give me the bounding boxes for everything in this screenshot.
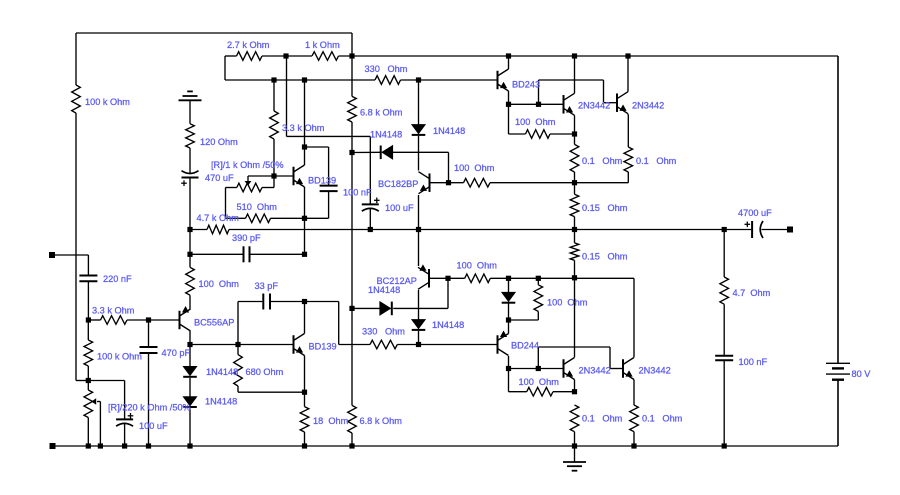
wire 330 R18 right lead bbox=[397, 344, 418, 346]
node gnd rail 6.8k bbox=[349, 443, 354, 448]
resistor R1 2.7 k Ohm bbox=[237, 52, 263, 61]
wire D2 to corner bbox=[393, 152, 449, 182]
node feedback junction bbox=[86, 378, 91, 383]
wire to 100uF C8 bbox=[88, 381, 124, 420]
wire 3.3k R7 bottom lead bbox=[273, 139, 275, 176]
wire 2.7k bracket bbox=[224, 56, 226, 80]
wire Q5 base bbox=[149, 319, 179, 321]
wire y278 line a bbox=[448, 277, 465, 279]
wire Q6 emitter lead bbox=[418, 195, 420, 230]
wire R23 leads bbox=[509, 278, 539, 320]
node 0.15 bottom bbox=[572, 275, 577, 280]
svg-text:100 nF: 100 nF bbox=[739, 357, 768, 367]
resistor R28 0.1 Ohm bbox=[570, 405, 579, 432]
svg-text:1N4148: 1N4148 bbox=[205, 397, 237, 407]
ground G1 bbox=[179, 91, 202, 100]
transistor Q3 2N3442 bbox=[564, 93, 575, 115]
wire output rail y229 bbox=[229, 229, 724, 231]
resistor R29 0.1 Ohm bbox=[630, 405, 639, 432]
svg-text:3.3 k Ohm: 3.3 k Ohm bbox=[92, 306, 135, 316]
resistor R26 0.15 Ohm bbox=[570, 194, 579, 216]
wire 100k R13 top lead bbox=[87, 320, 89, 340]
node pot P1 wiper bbox=[271, 173, 276, 178]
wire Q9 emitter lead bbox=[574, 380, 576, 392]
wire 33pF branch bbox=[238, 302, 262, 345]
capacitor C9 4700 uF bbox=[751, 221, 753, 238]
svg-text:BD243: BD243 bbox=[512, 80, 540, 90]
node Q5 collector bbox=[187, 342, 192, 347]
resistor R9 510 Ohm bbox=[246, 214, 271, 223]
node 390pF left bbox=[187, 252, 192, 257]
svg-text:0.15 Ohm: 0.15 Ohm bbox=[582, 203, 628, 213]
wire Q7 collector to D6 bbox=[418, 290, 420, 320]
svg-text:100 Ohm: 100 Ohm bbox=[454, 163, 495, 173]
wire D6 bottom lead bbox=[418, 331, 420, 345]
diode D4 1N4148 bbox=[183, 397, 197, 407]
wire top rail drop bbox=[351, 33, 353, 56]
node top rail x352 bbox=[349, 53, 354, 58]
resistor R6 120 Ohm bbox=[186, 124, 195, 148]
svg-text:100 Ohm: 100 Ohm bbox=[457, 261, 498, 271]
node Q1 emitter bbox=[302, 216, 307, 221]
node Q1 collector tap bbox=[302, 144, 307, 149]
svg-text:680 Ohm: 680 Ohm bbox=[246, 367, 284, 377]
wire Q10 emitter lead bbox=[633, 380, 635, 406]
node top rail Q3c bbox=[572, 53, 577, 58]
svg-text:100 Ohm: 100 Ohm bbox=[519, 377, 560, 387]
terminal ground ref bbox=[50, 443, 56, 449]
wire lower driver node bbox=[509, 368, 563, 370]
ground G2 bbox=[563, 446, 586, 471]
node gnd rail 0.1a bbox=[572, 443, 577, 448]
terminal output bbox=[787, 227, 793, 233]
wire 6.8k R17 bottom lead bbox=[351, 433, 353, 446]
wire 6.8k R5 top lead bbox=[351, 56, 353, 96]
wire to D5 bbox=[352, 307, 380, 309]
wire Q3 emitter lead bbox=[574, 115, 576, 134]
wire 220nF C1 bottom lead bbox=[87, 281, 89, 320]
wire 4.7 R30 to 100nF bbox=[723, 304, 725, 356]
node output x190 bbox=[187, 227, 192, 232]
wire bias line y80 left bbox=[225, 79, 375, 81]
svg-text:BC556AP: BC556AP bbox=[194, 318, 234, 328]
svg-text:BD244: BD244 bbox=[511, 341, 539, 351]
wire 100uF C8 bottom lead bbox=[124, 424, 126, 447]
svg-text:0.15 Ohm: 0.15 Ohm bbox=[582, 252, 628, 262]
node output 4700uF bbox=[722, 227, 727, 232]
wire Q2b collector line bbox=[304, 302, 306, 334]
diode D7 1N4148 bbox=[502, 292, 516, 302]
svg-text:80 V: 80 V bbox=[852, 369, 872, 379]
wire lower base line y344 left bbox=[190, 344, 293, 346]
wire 100k R1 top lead bbox=[75, 33, 77, 85]
svg-text:4.7 k Ohm: 4.7 k Ohm bbox=[197, 213, 240, 223]
wire jog to Q10 base bbox=[538, 347, 622, 369]
wire 6.8k R5 bottom lead bbox=[351, 122, 353, 153]
resistor R15 680 Ohm bbox=[234, 355, 243, 386]
wire 0.1 R28 bottom lead bbox=[574, 432, 576, 446]
wire 680 R15 top lead bbox=[237, 345, 239, 355]
wire Q8 base line bbox=[419, 344, 497, 346]
terminal input bbox=[49, 252, 55, 258]
wire 470uF C2 bottom lead bbox=[189, 178, 191, 230]
wire 470uF C2 top lead bbox=[189, 148, 191, 174]
node top rail Q2c bbox=[506, 53, 511, 58]
node gnd rail diodes bbox=[187, 443, 192, 448]
node bias x274 bbox=[271, 77, 276, 82]
wire Q2 emitter lead bbox=[508, 91, 510, 104]
transistor Q2 BD243 bbox=[498, 69, 509, 91]
node Q7 base bbox=[445, 276, 450, 281]
wire ground rail y446 bbox=[52, 445, 838, 447]
svg-text:470 uF: 470 uF bbox=[205, 173, 234, 183]
wire Q4 collector lead bbox=[627, 56, 629, 92]
svg-text:BD139: BD139 bbox=[308, 176, 336, 186]
node D6 bottom bbox=[416, 342, 421, 347]
svg-text:100 uF: 100 uF bbox=[385, 203, 414, 213]
wire between 2.7k and 1k bbox=[262, 55, 312, 57]
wire 0.1 R25 top lead bbox=[627, 115, 629, 147]
battery V1 80 V bbox=[826, 56, 850, 446]
wire D5 to Q7 base corner bbox=[393, 278, 448, 308]
wire 33pF node to 330 R18 bbox=[305, 302, 371, 345]
wire Q1 base bbox=[274, 175, 293, 177]
svg-text:1N4148: 1N4148 bbox=[206, 367, 238, 377]
svg-text:100 Ohm: 100 Ohm bbox=[547, 298, 588, 308]
wire 510 right lead bbox=[271, 217, 305, 219]
wire y182 line a bbox=[449, 182, 464, 184]
diode D2 1N4148 bbox=[381, 146, 393, 160]
svg-text:0.1 Ohm: 0.1 Ohm bbox=[642, 414, 683, 424]
wire Q2 emitter to Q3 base bbox=[509, 103, 563, 105]
svg-text:1N4148: 1N4148 bbox=[432, 320, 464, 330]
svg-text:33 pF: 33 pF bbox=[255, 281, 279, 291]
wire 0.1 R24 leads bbox=[574, 134, 576, 183]
potentiometer P2 220k 50% bbox=[84, 390, 93, 418]
wire 390pF right lead bbox=[251, 253, 305, 255]
capacitor C10 100 nF bbox=[715, 356, 733, 361]
wire 470pF C4 bottom lead bbox=[148, 353, 150, 446]
resistor R18 330 Ohm bbox=[370, 340, 397, 349]
wire left vertical feedback bbox=[75, 113, 77, 381]
node Q3 emitter bbox=[572, 131, 577, 136]
node Q9 emitter bbox=[572, 389, 577, 394]
svg-text:1N4148: 1N4148 bbox=[370, 130, 402, 140]
transistor Q1 BD139 bbox=[294, 165, 305, 187]
resistor R23 100 Ohm bbox=[534, 285, 543, 312]
svg-text:2N3442: 2N3442 bbox=[579, 366, 611, 376]
transistor Q8 BD244 bbox=[498, 331, 509, 356]
svg-text:330 Ohm: 330 Ohm bbox=[365, 64, 408, 74]
svg-text:100 Ohm: 100 Ohm bbox=[199, 279, 240, 289]
wire Q7 base bbox=[430, 277, 448, 279]
capacitor C5 33 pF bbox=[263, 294, 270, 310]
resistor R3 330 Ohm bbox=[375, 76, 401, 85]
svg-text:3.3 k Ohm: 3.3 k Ohm bbox=[282, 123, 325, 133]
resistor R25 0.1 Ohm bbox=[624, 147, 633, 172]
wire 33pF to Q2b collector bbox=[271, 301, 305, 303]
transistor Q4 2N3442 bbox=[617, 92, 628, 115]
node 6.8k bottom bbox=[349, 150, 354, 155]
node A 2.7k/1k bbox=[283, 53, 288, 58]
svg-text:1 k Ohm: 1 k Ohm bbox=[305, 40, 340, 50]
resistor R16 18 Ohm bbox=[300, 392, 309, 446]
wire 3.3k R7 top lead bbox=[273, 80, 275, 111]
svg-text:100 k Ohm: 100 k Ohm bbox=[85, 97, 130, 107]
svg-text:2N3442: 2N3442 bbox=[632, 101, 664, 111]
wire V+ right vertical bbox=[837, 56, 839, 363]
node gnd rail pot bbox=[86, 443, 91, 448]
svg-text:4.7 Ohm: 4.7 Ohm bbox=[733, 288, 771, 298]
wire y182 line b bbox=[490, 172, 628, 183]
wire Q4 base jog bbox=[539, 80, 617, 104]
diode D5 1N4148 bbox=[380, 302, 392, 316]
resistor R24 0.1 Ohm bbox=[570, 144, 579, 172]
node D7 top bbox=[506, 276, 511, 281]
wire 470pF C4 top lead bbox=[148, 320, 150, 347]
wire Q8 emitter lead bbox=[508, 320, 510, 334]
wire pot P1 left bracket bbox=[226, 188, 246, 219]
resistor R30 4.7 Ohm bbox=[720, 277, 729, 304]
node Q3 base bbox=[536, 102, 541, 107]
node Q8 emitter bbox=[506, 317, 511, 322]
wire output to 390pF node bbox=[189, 230, 191, 255]
node R23 top bbox=[536, 276, 541, 281]
wire Q7 emitter lead bbox=[418, 230, 420, 267]
resistor R10 4.7 k Ohm bbox=[190, 225, 229, 234]
resistor R13 100 k Ohm bbox=[84, 340, 93, 366]
node bias x418 bbox=[416, 77, 421, 82]
transistor Q7 BC212AP bbox=[418, 264, 429, 289]
potentiometer P1 1k 50% bbox=[237, 183, 262, 192]
transistor Q11 BD139 bbox=[294, 334, 305, 356]
node gnd rail 470pF bbox=[146, 443, 151, 448]
svg-text:100 uF: 100 uF bbox=[139, 421, 168, 431]
svg-text:2N3442: 2N3442 bbox=[639, 366, 671, 376]
resistor R17 6.8 k Ohm bbox=[348, 405, 357, 433]
wire 4700uF right lead bbox=[762, 229, 788, 231]
wire y278 to Q10 collector bbox=[575, 278, 635, 357]
diode D3 1N4148 bbox=[183, 366, 197, 376]
wire 3.3k R12 left lead bbox=[88, 319, 100, 321]
resistor R22 100 Ohm bbox=[527, 387, 553, 396]
node 680 top bbox=[235, 342, 240, 347]
wire y278 line b bbox=[490, 277, 574, 279]
wire 0.15 chain bbox=[574, 183, 576, 278]
wire D1 to Q6 collector bbox=[418, 136, 420, 171]
resistor R19 100 Ohm bbox=[464, 178, 491, 187]
svg-text:390 pF: 390 pF bbox=[232, 233, 261, 243]
svg-text:100 Ohm: 100 Ohm bbox=[515, 117, 556, 127]
resistor R5 6.8 k Ohm bbox=[348, 96, 357, 122]
wire 100ohm R22 right lead bbox=[553, 391, 575, 393]
svg-text:6.8 k Ohm: 6.8 k Ohm bbox=[360, 108, 403, 118]
node 390pF right bbox=[302, 252, 307, 257]
svg-text:0.1 Ohm: 0.1 Ohm bbox=[582, 156, 623, 166]
transistor Q5 BC556AP bbox=[180, 306, 191, 331]
wire node to 390pF bbox=[304, 218, 306, 254]
wire Q9 collector line bbox=[574, 278, 576, 358]
capacitor C1 220 nF bbox=[79, 276, 97, 282]
wire VAS rail x352 bbox=[351, 153, 353, 406]
node output 100uF bbox=[368, 227, 373, 232]
wire Q2b emitter line bbox=[304, 356, 306, 393]
diode D1 1N4148 bbox=[412, 125, 426, 135]
node Q9 base bbox=[536, 366, 541, 371]
node gnd rail 0.1b bbox=[631, 443, 636, 448]
resistor R27 0.15 Ohm bbox=[570, 243, 579, 260]
wire 100ohm R21 right lead bbox=[550, 133, 575, 135]
wire 390pF left lead bbox=[190, 253, 243, 255]
resistor R21 100 Ohm bbox=[526, 130, 551, 139]
node gnd rail wiper bbox=[98, 443, 103, 448]
svg-text:2N3442: 2N3442 bbox=[578, 101, 610, 111]
resistor R20 100 Ohm bbox=[465, 274, 491, 283]
capacitor C8 100 uF bbox=[116, 413, 133, 426]
node Q8 collector bbox=[506, 366, 511, 371]
svg-text:BD139: BD139 bbox=[309, 342, 337, 352]
svg-text:[R]/1 k Ohm /50%: [R]/1 k Ohm /50% bbox=[211, 160, 284, 170]
node Q2 emitter bbox=[506, 102, 511, 107]
wire diode chain D3 D4 bbox=[189, 345, 191, 447]
wire pot P2 wiper bbox=[97, 402, 100, 447]
node gnd rail 100nF bbox=[722, 443, 727, 448]
capacitor C6 100 nF bbox=[320, 186, 338, 192]
wire Q8 collector lead bbox=[508, 356, 510, 369]
svg-text:4700 uF: 4700 uF bbox=[738, 208, 772, 218]
capacitor C3 390 pF bbox=[244, 246, 250, 262]
diode D6 1N4148 bbox=[412, 320, 426, 330]
node gnd rail 100uF bbox=[122, 443, 127, 448]
node 3.3k left bbox=[86, 317, 91, 322]
transistor Q10 2N3442 bbox=[623, 358, 634, 380]
svg-text:120 Ohm: 120 Ohm bbox=[200, 137, 238, 147]
wire down to 100ohm R21 bbox=[509, 104, 526, 134]
wire 680 R15 bottom lead bbox=[238, 386, 305, 392]
node 33pF right bbox=[302, 299, 307, 304]
node bias x304 bbox=[302, 77, 307, 82]
svg-text:220 nF: 220 nF bbox=[103, 274, 132, 284]
wire 4.7 R30 top lead bbox=[723, 230, 725, 278]
wire input stub bbox=[55, 255, 88, 276]
svg-text:[R]/220 k Ohm /50%: [R]/220 k Ohm /50% bbox=[108, 403, 191, 413]
wire 2.7k left lead bbox=[225, 55, 237, 57]
node 3.3k right bbox=[146, 317, 151, 322]
resistor R4 100 k Ohm bbox=[72, 85, 81, 113]
svg-text:510 Ohm: 510 Ohm bbox=[237, 202, 278, 212]
wire diode D1 top lead bbox=[418, 80, 420, 125]
node output x418 bbox=[416, 227, 421, 232]
wire 4700uF left lead bbox=[724, 229, 751, 231]
svg-text:2.7 k Ohm: 2.7 k Ohm bbox=[227, 40, 270, 50]
transistor Q6 BC182BP bbox=[419, 172, 430, 194]
wire Q1 collector line bbox=[304, 80, 306, 165]
wire top rail left bbox=[76, 32, 352, 34]
wire bias line y80 right bbox=[401, 79, 497, 81]
wire pot P1 wiper bbox=[248, 176, 274, 181]
node gnd rail 18ohm bbox=[302, 443, 307, 448]
wire pot P1 right lead bbox=[262, 176, 274, 188]
wire Q2 collector lead bbox=[508, 56, 510, 69]
wire Q3 collector lead bbox=[574, 56, 576, 93]
wire Q5 emitter lead bbox=[189, 295, 191, 309]
capacitor C2 470 uF bbox=[181, 171, 198, 186]
resistor R7 3.3 k Ohm bbox=[270, 111, 279, 139]
wire Q5 collector lead bbox=[189, 331, 191, 345]
svg-text:1N4148: 1N4148 bbox=[368, 285, 400, 295]
node R24 bottom bbox=[572, 180, 577, 185]
resistor R12 3.3 k Ohm bbox=[101, 316, 128, 325]
node output x574 bbox=[572, 227, 577, 232]
node top rail Q4c bbox=[625, 53, 630, 58]
capacitor C7 100 uF bbox=[362, 198, 380, 212]
svg-text:BC182BP: BC182BP bbox=[378, 179, 418, 189]
wire bootstrap from node A bbox=[287, 56, 371, 204]
wire 3.3k R12 right lead bbox=[127, 319, 149, 321]
svg-text:470 pF: 470 pF bbox=[162, 348, 191, 358]
wire D7 leads bbox=[508, 278, 510, 320]
wire 100k R13 bottom lead bbox=[87, 366, 89, 390]
node Q6 base bbox=[446, 180, 451, 185]
svg-text:330 Ohm: 330 Ohm bbox=[362, 327, 405, 337]
svg-text:100 k Ohm: 100 k Ohm bbox=[97, 352, 142, 362]
resistor R2 1 k Ohm bbox=[312, 52, 339, 61]
resistor R11 100 Ohm bbox=[186, 267, 195, 295]
svg-text:18 Ohm: 18 Ohm bbox=[313, 416, 349, 426]
svg-text:0.1 Ohm: 0.1 Ohm bbox=[582, 414, 623, 424]
svg-text:1N4148: 1N4148 bbox=[433, 126, 465, 136]
capacitor C4 470 pF bbox=[140, 347, 158, 353]
wire 0.1 R29 bottom lead bbox=[633, 432, 635, 446]
svg-text:100 nF: 100 nF bbox=[343, 188, 372, 198]
wire Q8c down to 100ohm bbox=[509, 369, 527, 392]
node VAS D5 bbox=[349, 306, 354, 311]
node Q2b emitter bbox=[302, 390, 307, 395]
wire Q6 base bbox=[431, 182, 449, 184]
svg-text:0.1 Ohm: 0.1 Ohm bbox=[636, 156, 677, 166]
svg-text:6.8 k Ohm: 6.8 k Ohm bbox=[360, 416, 403, 426]
wire node V+ rail y56 bbox=[339, 55, 839, 57]
wire 100nF C6 branch bbox=[305, 147, 329, 218]
wire battery bottom lead bbox=[837, 380, 839, 446]
transistor Q9 2N3442 bbox=[564, 358, 575, 380]
wire 6.8k to D2 bbox=[352, 151, 380, 153]
wire 100uF C7 bottom lead bbox=[369, 209, 371, 230]
wire Q1 emitter line bbox=[304, 187, 306, 218]
wire 100ohm R11 top lead bbox=[189, 254, 191, 267]
wire 100nF C10 bottom lead bbox=[723, 360, 725, 446]
wire ground G1 stem bbox=[189, 100, 191, 123]
wire pot P2 bottom lead bbox=[87, 418, 89, 447]
wire feedback bottom jog bbox=[76, 380, 88, 382]
